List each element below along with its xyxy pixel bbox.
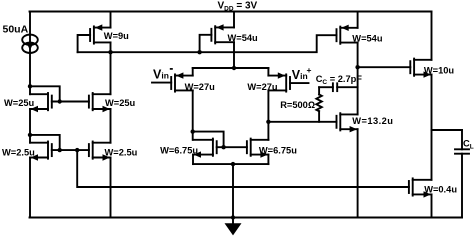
node source line [231, 162, 235, 166]
svg-text:50uA: 50uA [3, 23, 29, 35]
wire output to CL [432, 129, 463, 131]
node M5 gate [221, 145, 225, 149]
transistor Q3 W=54u (second stage PMOS) [337, 25, 358, 44]
wire M1 source down [29, 109, 31, 143]
transistor Q6 W=27u (Vin+ PMOS mirrored) [268, 72, 308, 91]
transistor M2 W=25u (right NMOS) [89, 93, 111, 112]
ground symbol [225, 218, 242, 236]
wire node to M3 gate tie [30, 135, 60, 150]
svg-text:W=6.75u: W=6.75u [259, 145, 297, 155]
svg-text:W=2.5u: W=2.5u [2, 148, 35, 158]
transistor M4 W=2.5u (right NMOS) [89, 142, 111, 161]
current source I1 50uA [22, 35, 38, 53]
wire VDD to current source [29, 12, 31, 35]
capacitor CC 2.7pF [319, 83, 358, 91]
node M5 drain [191, 129, 195, 133]
gate line M5-M6 [217, 146, 247, 148]
wire Q1 source to VDD [110, 12, 112, 28]
node second stage output [355, 65, 359, 69]
transistor Q4 W=10u (output follower) [410, 59, 431, 78]
ground rail [30, 217, 463, 219]
node tail [232, 66, 236, 70]
transistor M1 W=25u (left, mirrored NMOS diode) [30, 93, 52, 112]
wire Q2 drain to tail node [233, 42, 235, 68]
node M1/M3 [28, 133, 32, 137]
transistor M7 W=13.2u (second stage NMOS) [337, 113, 358, 132]
wire second stage output to Q4 gate [358, 66, 411, 68]
transistor M5 W=6.75u (mirrored NMOS diode load) [193, 139, 217, 158]
svg-text:W=0.4u: W=0.4u [424, 184, 457, 194]
svg-text:R=500Ω: R=500Ω [280, 100, 315, 110]
node M1 gate [58, 99, 62, 103]
node bias tap [75, 148, 79, 152]
node first stage output [266, 120, 270, 124]
wire Q3 drain to M7 drain [357, 43, 359, 115]
transistor Q1 W=9u (PMOS diode) [90, 24, 110, 43]
resistor R 500ohm [316, 87, 321, 122]
wire Q1 gate to bias line [78, 35, 91, 52]
wire Q5 drain down to M5 [192, 90, 194, 139]
wire M5 source down [192, 155, 194, 165]
svg-text:W=54u: W=54u [228, 33, 259, 43]
node current source / M1 [28, 84, 32, 88]
wire Q2 source to VDD [233, 12, 235, 28]
VDD rail [30, 11, 432, 13]
wire M8 source to ground rail [431, 194, 433, 217]
wire Q5 source to tail [192, 68, 194, 76]
svg-text:VDD = 3V: VDD = 3V [218, 0, 258, 12]
wire Q4 drain to VDD [431, 12, 433, 60]
svg-text:W=2.5u: W=2.5u [105, 148, 138, 158]
gate line M3-M4 [52, 149, 89, 151]
wire M2 source to M4 drain [110, 109, 112, 143]
wire M3 source to ground rail [29, 158, 31, 218]
node Q1 drain [108, 50, 112, 54]
pmos bias line [78, 35, 337, 52]
svg-text:CC = 2.7pF: CC = 2.7pF [316, 74, 363, 86]
tail wire [193, 67, 269, 69]
gate line M1-M2 [52, 101, 89, 103]
svg-text:Vin: Vin [153, 68, 169, 82]
svg-text:W=27u: W=27u [185, 82, 216, 92]
svg-text:W=25u: W=25u [4, 98, 35, 108]
wire Q1 drain to bias line [110, 42, 112, 52]
svg-text:+: + [307, 65, 312, 75]
wire output node [431, 75, 433, 180]
wire Q3 source to VDD [357, 12, 359, 28]
svg-text:W=9u: W=9u [104, 31, 129, 41]
wire first stage output to M7 gate [268, 121, 336, 123]
transistor M3 W=2.5u (left, mirrored NMOS diode) [30, 142, 52, 161]
wire M5 drain-gate tie [193, 132, 224, 148]
wire M6 source down [267, 155, 269, 165]
node Q2 gate [197, 50, 201, 54]
transistor Q2 W=54u (tail PMOS) [200, 24, 234, 52]
wire M4 source to ground rail [110, 158, 112, 218]
svg-text:Vin: Vin [292, 68, 308, 82]
wire Q1 drain to M2 drain [110, 52, 112, 94]
wire current source to M1 drain [29, 53, 31, 94]
transistor Q5 W=27u (Vin- PMOS) [152, 72, 193, 91]
svg-text:W=25u: W=25u [105, 98, 136, 108]
wire source line to ground rail [232, 164, 234, 217]
svg-text:W=13.2u: W=13.2u [352, 116, 393, 126]
source line M5-M6 [193, 163, 268, 165]
transistor M8 W=0.4u (output sink NMOS) [409, 178, 432, 197]
wire Q6 source to tail [267, 68, 269, 76]
transistor M6 W=6.75u (NMOS load) [247, 139, 269, 158]
svg-text:W=27u: W=27u [247, 82, 278, 92]
wire Q6 drain down to M6 [267, 90, 269, 139]
node M3 gate [58, 148, 62, 152]
node ground rail [231, 215, 235, 219]
wire M7 source to ground rail [357, 129, 359, 217]
wire node to M1 gate tie [30, 86, 60, 101]
svg-text:W=10u: W=10u [424, 65, 455, 75]
capacitor CL [455, 130, 469, 218]
wire bias line to M8 gate [77, 150, 409, 187]
